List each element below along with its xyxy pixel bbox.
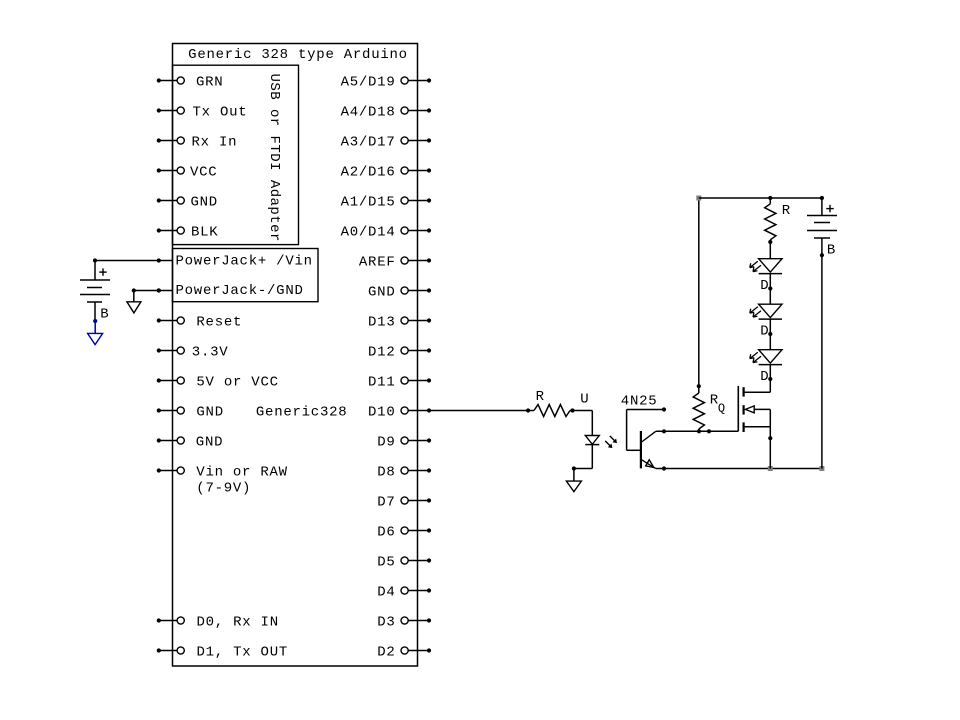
- LED D1: [750, 259, 782, 294]
- pin AREF (right): [359, 255, 431, 271]
- svg-text:GND: GND: [191, 195, 218, 211]
- sub-block: USB or FTDI Adapter box: [173, 65, 299, 244]
- pin PowerJack-/GND: [157, 283, 304, 299]
- pin D4 (right): [377, 585, 431, 601]
- svg-text:PowerJack-/GND: PowerJack-/GND: [176, 283, 304, 299]
- ground (blue) below battery B: [88, 319, 103, 345]
- pin D6 (right): [377, 525, 431, 541]
- wire: collector to gate rail (with RQ junctions): [656, 429, 739, 433]
- opto transistor base wire and pin: [627, 407, 667, 450]
- pin D10 (right): [368, 405, 530, 421]
- battery B (left): [80, 261, 110, 323]
- pin 3.3V (left): [157, 345, 229, 361]
- label: RQ: [710, 393, 726, 416]
- LED inside 4N25 (input diode): [585, 436, 599, 445]
- wire: battery B to PowerJack+: [93, 258, 159, 262]
- junction square (bottom rail / battery negative): [819, 466, 824, 471]
- sub-block: PowerJack box: [173, 249, 319, 302]
- wire: node U to opto LED anode: [573, 411, 593, 436]
- pin 5V or VCC (left): [157, 375, 279, 391]
- wire: PowerJack- to ground: [132, 288, 161, 301]
- svg-text:Q: Q: [718, 402, 726, 416]
- node U: [570, 391, 589, 412]
- svg-text:D0, Rx IN: D0, Rx IN: [197, 615, 279, 631]
- svg-text:D3: D3: [377, 615, 395, 631]
- junction square (bottom rail / MOSFET source): [768, 466, 773, 471]
- svg-text:A1/D15: A1/D15: [341, 195, 396, 211]
- svg-text:3.3V: 3.3V: [192, 345, 229, 361]
- svg-text:4N25: 4N25: [621, 393, 658, 409]
- pin Rx In (left): [157, 135, 238, 151]
- svg-text:D4: D4: [377, 585, 395, 601]
- svg-text:GND: GND: [196, 435, 223, 451]
- pin A2/D16 (right): [341, 165, 432, 181]
- pin Vin or RAW (left): [157, 465, 288, 481]
- pin D3 (right): [377, 615, 431, 631]
- resistor RQ: [693, 386, 704, 431]
- pin D5 (right): [377, 555, 431, 571]
- svg-text:R: R: [782, 203, 791, 219]
- svg-text:D5: D5: [377, 555, 395, 571]
- pin D7 (right): [377, 495, 431, 511]
- svg-text:(7-9V): (7-9V): [196, 481, 251, 497]
- MOSFET Q (N-channel): [738, 379, 770, 432]
- svg-text:GND: GND: [196, 405, 223, 421]
- svg-text:D12: D12: [368, 345, 395, 361]
- svg-text:GND: GND: [368, 285, 395, 301]
- pin A1/D15 (right): [341, 195, 432, 211]
- pin D0, Rx IN (left): [157, 615, 279, 631]
- svg-text:D7: D7: [377, 495, 395, 511]
- pin D13 (right): [368, 315, 431, 331]
- svg-text:A3/D17: A3/D17: [341, 135, 396, 151]
- IC U1: Generic 328 type Arduino body: [173, 44, 418, 667]
- pin Tx Out (left): [157, 105, 248, 121]
- svg-text:A2/D16: A2/D16: [341, 165, 396, 181]
- pin D12 (right): [368, 345, 431, 361]
- svg-text:Rx In: Rx In: [192, 135, 238, 151]
- svg-text:B: B: [827, 243, 836, 259]
- svg-text:U: U: [580, 391, 589, 407]
- svg-text:B: B: [100, 306, 109, 322]
- wire: top rail down to RQ: [697, 198, 701, 388]
- pin GND (left): [157, 195, 218, 211]
- pin A4/D18 (right): [341, 105, 432, 121]
- svg-text:R: R: [536, 389, 545, 405]
- svg-text:D11: D11: [368, 375, 395, 391]
- svg-text:Tx Out: Tx Out: [193, 105, 248, 121]
- svg-text:D10: D10: [368, 405, 395, 421]
- resistor R (series from D10): [528, 405, 572, 417]
- wire: top rail: [699, 196, 824, 200]
- svg-text:D1, Tx OUT: D1, Tx OUT: [197, 645, 289, 661]
- svg-text:Generic 328 type Arduino: Generic 328 type Arduino: [188, 47, 408, 63]
- pin BLK (left): [157, 225, 219, 241]
- svg-text:A0/D14: A0/D14: [341, 225, 396, 241]
- pin GND (right): [368, 285, 431, 301]
- resistor R (LED chain): [765, 198, 776, 244]
- svg-text:BLK: BLK: [191, 225, 218, 241]
- svg-text:D6: D6: [377, 525, 395, 541]
- pin VCC (left): [157, 165, 218, 181]
- pin A5/D19 (right): [341, 75, 432, 91]
- ground at opto LED: [566, 481, 581, 492]
- pin A3/D17 (right): [341, 135, 432, 151]
- pin D9 (right): [377, 435, 431, 451]
- ground at PowerJack-: [127, 302, 141, 313]
- battery B (right): [807, 205, 837, 259]
- svg-text:A4/D18: A4/D18: [341, 105, 396, 121]
- opto transistor Q (4N25): [641, 431, 656, 469]
- pin GRN (left): [157, 75, 224, 91]
- pin A0/D14 (right): [341, 225, 432, 241]
- wire: top rail to battery +: [821, 198, 823, 216]
- wire: resistor R to LED D1: [769, 242, 771, 259]
- wire: emitter to bottom rail: [656, 466, 822, 470]
- wire: opto LED cathode to ground: [572, 445, 592, 481]
- svg-text:GRN: GRN: [196, 75, 223, 91]
- pin D2 (right): [377, 645, 431, 661]
- pin GND (left): [157, 435, 224, 451]
- junction square (top rail corner): [696, 196, 701, 201]
- wire: LED D3 to MOSFET drain: [768, 365, 772, 382]
- svg-text:D8: D8: [377, 465, 395, 481]
- svg-text:D: D: [760, 278, 769, 294]
- svg-text:Generic328: Generic328: [256, 405, 348, 421]
- svg-text:D: D: [760, 323, 769, 339]
- svg-text:D13: D13: [368, 315, 395, 331]
- svg-text:D2: D2: [377, 645, 395, 661]
- pin D11 (right): [368, 375, 431, 391]
- svg-text:A5/D19: A5/D19: [341, 75, 396, 91]
- wire: LED D1 to D2: [768, 274, 772, 305]
- LED D2: [750, 304, 782, 339]
- svg-text:VCC: VCC: [190, 165, 217, 181]
- LED D3: [750, 350, 782, 385]
- opto light arrows (LED to transistor): [605, 436, 617, 448]
- svg-text:Reset: Reset: [196, 315, 242, 331]
- pin PowerJack+ /Vin: [157, 254, 313, 270]
- wire: battery - to bottom rail: [820, 238, 824, 469]
- pin GND (left): [157, 405, 224, 421]
- svg-text:D: D: [760, 369, 769, 385]
- svg-text:AREF: AREF: [359, 255, 396, 271]
- svg-text:D9: D9: [377, 435, 395, 451]
- pin Reset (left): [157, 315, 242, 331]
- svg-text:Vin or RAW: Vin or RAW: [196, 465, 288, 481]
- svg-text:USB or FTDI Adapter: USB or FTDI Adapter: [266, 74, 282, 242]
- svg-text:PowerJack+ /Vin: PowerJack+ /Vin: [176, 254, 313, 270]
- wire: LED D2 to D3: [768, 319, 772, 350]
- svg-text:5V or VCC: 5V or VCC: [196, 375, 278, 391]
- pin D1, Tx OUT (left): [157, 645, 288, 661]
- wire: MOSFET source to bottom rail: [768, 409, 772, 468]
- pin D8 (right): [377, 465, 431, 481]
